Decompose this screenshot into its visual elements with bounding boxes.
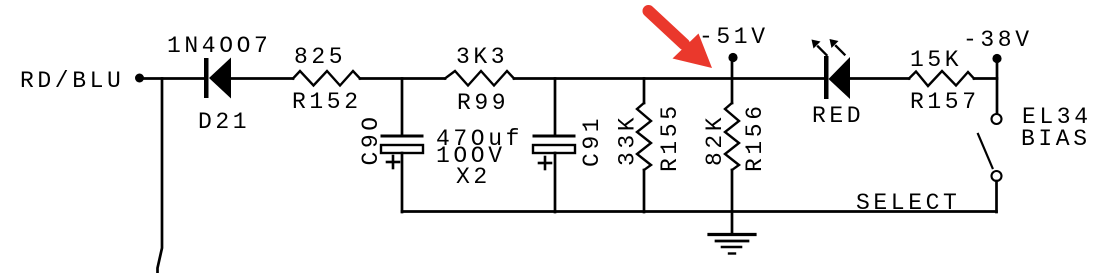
node -38V [992, 54, 1001, 63]
wire [231, 77, 293, 80]
svg-text:RD/BLU: RD/BLU [20, 68, 124, 94]
wire [143, 77, 205, 80]
svg-text:R157: R157 [910, 89, 980, 115]
svg-text:R99: R99 [457, 90, 509, 116]
wire [514, 77, 826, 80]
svg-text:-51V: -51V [699, 24, 769, 50]
svg-text:SELECT: SELECT [856, 190, 960, 216]
svg-text:BIAS: BIAS [1021, 126, 1091, 152]
svg-text:82K: 82K [702, 114, 728, 166]
svg-text:R156: R156 [742, 102, 768, 172]
svg-text:C9O: C9O [358, 113, 384, 165]
capacitor C90 [381, 79, 423, 213]
node RD/BLU [135, 74, 144, 83]
ground [709, 235, 755, 254]
wire [158, 79, 163, 273]
svg-text:1N4OO7: 1N4OO7 [167, 33, 271, 59]
resistor R156 [725, 57, 739, 233]
resistor R152 [293, 71, 360, 86]
resistor R155 [637, 79, 651, 213]
svg-text:R152: R152 [292, 89, 362, 115]
svg-text:33K: 33K [615, 114, 641, 166]
switch EL34 BIAS [978, 58, 1002, 212]
wire [974, 77, 997, 80]
annotation arrow [649, 11, 713, 68]
svg-text:D21: D21 [198, 109, 250, 135]
svg-text:RED: RED [812, 103, 864, 129]
svg-text:825: 825 [294, 44, 346, 70]
LED RED [812, 39, 851, 99]
svg-text:R155: R155 [657, 102, 683, 172]
wire [850, 77, 909, 80]
wire [402, 210, 997, 213]
capacitor C91 [533, 79, 575, 213]
wire [360, 77, 445, 80]
svg-text:X2: X2 [456, 164, 491, 190]
svg-text:15K: 15K [910, 47, 962, 73]
resistor R157 [909, 71, 974, 86]
svg-text:-38V: -38V [963, 27, 1033, 53]
svg-text:C91: C91 [579, 115, 605, 167]
resistor R99 [445, 71, 514, 86]
node -51V [728, 53, 737, 62]
svg-text:3K3: 3K3 [456, 44, 508, 70]
diode D21 [204, 58, 231, 99]
